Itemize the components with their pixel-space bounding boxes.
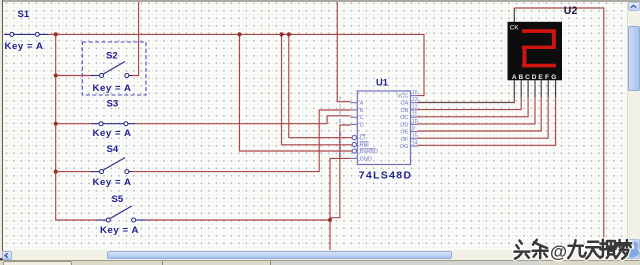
svg-text:9: 9 bbox=[412, 126, 415, 132]
svg-text:8: 8 bbox=[339, 153, 342, 159]
svg-text:11: 11 bbox=[412, 112, 418, 118]
svg-text:CK: CK bbox=[510, 24, 520, 31]
svg-text:OD: OD bbox=[400, 122, 408, 128]
svg-text:GND: GND bbox=[360, 156, 372, 162]
svg-text:F: F bbox=[545, 74, 549, 81]
svg-text:D: D bbox=[360, 122, 364, 128]
svg-text:LT: LT bbox=[360, 136, 367, 142]
svg-text:S4: S4 bbox=[107, 144, 119, 155]
svg-text:Key = A: Key = A bbox=[93, 128, 132, 139]
svg-text:5: 5 bbox=[339, 139, 342, 145]
svg-text:OB: OB bbox=[401, 108, 409, 114]
svg-text:U2: U2 bbox=[564, 5, 578, 17]
svg-text:VCC: VCC bbox=[397, 94, 408, 100]
svg-text:A: A bbox=[512, 74, 517, 81]
svg-text:S2: S2 bbox=[106, 50, 118, 61]
svg-text:Key = A: Key = A bbox=[93, 83, 132, 94]
svg-text:OC: OC bbox=[400, 115, 408, 121]
svg-text:@: @ bbox=[550, 242, 567, 262]
svg-text:OE: OE bbox=[401, 130, 409, 136]
svg-text:Key = A: Key = A bbox=[100, 225, 139, 236]
svg-text:A: A bbox=[360, 101, 364, 107]
svg-text:15: 15 bbox=[412, 133, 418, 139]
svg-text:B: B bbox=[519, 74, 524, 81]
svg-text:C: C bbox=[525, 74, 530, 81]
svg-text:1: 1 bbox=[339, 104, 342, 110]
svg-text:16: 16 bbox=[412, 90, 418, 96]
svg-text:D: D bbox=[532, 74, 537, 81]
svg-text:2: 2 bbox=[339, 112, 342, 118]
svg-text:BI/RBO: BI/RBO bbox=[360, 149, 378, 155]
svg-text:G: G bbox=[551, 74, 556, 81]
svg-text:14: 14 bbox=[412, 141, 418, 147]
svg-text:U1: U1 bbox=[376, 76, 388, 87]
svg-text:B: B bbox=[360, 108, 364, 114]
svg-text:Key = A: Key = A bbox=[93, 177, 132, 188]
svg-text:4: 4 bbox=[339, 146, 342, 152]
svg-text:S1: S1 bbox=[18, 9, 30, 20]
svg-text:10: 10 bbox=[412, 119, 418, 125]
svg-text:13: 13 bbox=[412, 97, 418, 103]
svg-text:RBI: RBI bbox=[360, 143, 369, 149]
svg-text:C: C bbox=[360, 115, 364, 121]
svg-text:74LS48D: 74LS48D bbox=[359, 170, 413, 181]
svg-text:OG: OG bbox=[400, 144, 408, 150]
svg-text:S3: S3 bbox=[107, 98, 119, 109]
svg-text:12: 12 bbox=[412, 104, 418, 110]
svg-text:3: 3 bbox=[339, 132, 342, 138]
svg-text:S5: S5 bbox=[112, 194, 124, 205]
svg-text:OF: OF bbox=[401, 137, 409, 143]
svg-text:7: 7 bbox=[339, 97, 342, 103]
svg-text:OA: OA bbox=[401, 101, 409, 107]
svg-text:E: E bbox=[538, 74, 543, 81]
svg-text:6: 6 bbox=[339, 119, 342, 125]
svg-text:Key = A: Key = A bbox=[5, 41, 44, 52]
